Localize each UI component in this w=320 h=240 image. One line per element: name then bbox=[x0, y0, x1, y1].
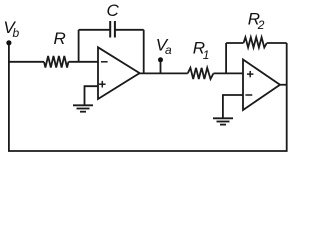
ground G2 bbox=[213, 118, 233, 124]
wire feedback down to U1 output bbox=[143, 30, 145, 74]
svg-text:R1: R1 bbox=[193, 39, 210, 62]
wire to R2 bbox=[226, 42, 243, 44]
capacitor C right plate bbox=[114, 21, 116, 38]
wire U2 minus input to ground bbox=[223, 95, 243, 118]
wire Vb node to resistor R bbox=[8, 61, 44, 63]
capacitor C left plate bbox=[109, 21, 111, 38]
wire tap up to R2 bbox=[225, 43, 227, 73]
svg-text:R: R bbox=[54, 29, 66, 48]
wire R1 to op-amp U2 plus input bbox=[213, 72, 243, 74]
node Vb dot bbox=[6, 40, 11, 45]
wire to capacitor left plate bbox=[79, 29, 111, 31]
U1 plus sign bbox=[99, 81, 106, 88]
resistor R bbox=[44, 56, 68, 68]
op-amp U2 triangle bbox=[243, 60, 280, 111]
resistor R2 bbox=[244, 37, 267, 47]
U2 minus sign bbox=[245, 94, 252, 96]
wire R2 to right rail bbox=[267, 42, 287, 44]
U1 minus sign bbox=[101, 61, 108, 63]
resistor R1 bbox=[188, 68, 214, 79]
svg-text:Vb: Vb bbox=[3, 18, 19, 40]
ground G1 bbox=[73, 105, 93, 111]
svg-text:Va: Va bbox=[156, 36, 172, 58]
wire feedback tap up to capacitor bbox=[78, 30, 80, 62]
wire U2 output to right rail bbox=[280, 84, 287, 86]
node Va dot bbox=[158, 57, 163, 62]
wire R to op-amp U1 inverting input bbox=[68, 61, 98, 63]
wire Va stub bbox=[160, 60, 162, 73]
op-amp U1 triangle bbox=[98, 47, 140, 99]
wire capacitor right plate to feedback corner bbox=[115, 29, 144, 31]
svg-text:R2: R2 bbox=[248, 9, 265, 32]
svg-text:C: C bbox=[107, 1, 120, 20]
U2 plus sign bbox=[247, 71, 253, 77]
wire outer loop: left rail, bottom rail, right rail bbox=[9, 43, 287, 151]
wire U1 output to R1 bbox=[139, 72, 188, 74]
wire U1 plus input to ground bbox=[85, 86, 99, 105]
